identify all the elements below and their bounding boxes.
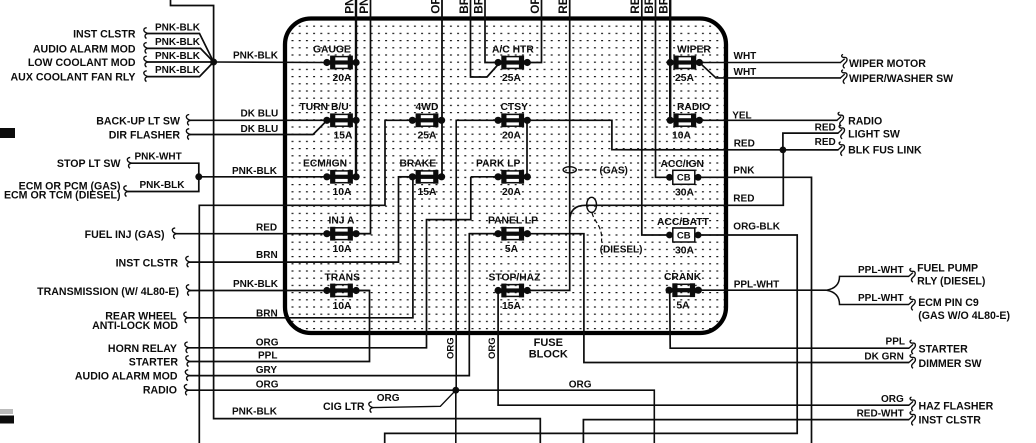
wire CIG LTR ORG: [369, 402, 373, 413]
circuit breaker ACC/IGN 30A: [661, 159, 704, 199]
svg-text:BRAKE: BRAKE: [400, 159, 437, 170]
wire RED branch arc to DIESEL line: [570, 205, 727, 221]
svg-text:RADIO: RADIO: [143, 384, 177, 396]
svg-text:PNK-BLK: PNK-BLK: [232, 407, 278, 418]
svg-text:30A: 30A: [675, 188, 694, 199]
wire BRAKE left lead: [399, 176, 413, 178]
svg-text:PNK-BLK: PNK-BLK: [233, 50, 279, 61]
svg-text:PNK-BLK: PNK-BLK: [140, 180, 186, 191]
wire AUDIO ALARM MOD PNK-BLK: [144, 43, 148, 54]
scan mark left edge 1: [0, 128, 15, 138]
svg-text:RED: RED: [256, 223, 277, 234]
node RED junction: [780, 147, 787, 154]
svg-text:TURN B/U: TURN B/U: [300, 102, 349, 113]
node ORG junction: [452, 387, 459, 394]
svg-text:CRANK: CRANK: [664, 272, 702, 283]
svg-text:FUEL INJ (GAS): FUEL INJ (GAS): [85, 229, 165, 241]
svg-text:RED-WHT: RED-WHT: [857, 408, 904, 419]
svg-text:10A: 10A: [333, 301, 352, 312]
wire hook ECM PNK-BLK: [124, 186, 128, 197]
svg-text:PNK-BLK: PNK-BLK: [232, 166, 278, 177]
fuse TRANS 10A: [323, 272, 360, 312]
svg-text:FUEL PUMP: FUEL PUMP: [917, 262, 978, 274]
svg-text:A/C HTR: A/C HTR: [492, 44, 534, 55]
svg-text:PANEL LP: PANEL LP: [488, 216, 538, 227]
wire DIESEL RED riser: [727, 150, 783, 205]
svg-text:PNK-BLK: PNK-BLK: [155, 37, 201, 48]
svg-text:PN: PN: [342, 0, 356, 14]
svg-text:ACC/IGN: ACC/IGN: [661, 159, 704, 170]
wire WIPER WHT 2: [699, 63, 841, 78]
svg-text:20A: 20A: [502, 131, 521, 142]
fuse STOP/HAZ 15A: [489, 272, 541, 312]
svg-text:INJ A: INJ A: [329, 216, 356, 227]
wire BACK-UP LT SW DK BLU: [186, 115, 190, 126]
svg-text:25A: 25A: [418, 131, 437, 142]
svg-text:ORG: ORG: [487, 337, 498, 359]
node PNK-BLK junction: [210, 59, 217, 66]
wire PARK LP left lead: [471, 176, 498, 178]
wire AUX COOLANT FAN RLY PNK-BLK: [144, 71, 148, 82]
wire ACC/BATT ORG-BLK: [385, 235, 798, 443]
fuse GAUGE 20A: [313, 44, 360, 84]
svg-text:HORN RELAY: HORN RELAY: [108, 343, 177, 355]
svg-text:STOP/HAZ: STOP/HAZ: [489, 272, 541, 283]
circuit breaker ACC/BATT 30A: [657, 217, 710, 256]
svg-text:WHT: WHT: [734, 67, 757, 78]
svg-text:ECM/IGN: ECM/IGN: [303, 159, 347, 170]
fuse CRANK 5A: [664, 272, 702, 312]
svg-text:CB: CB: [677, 173, 691, 184]
svg-text:STARTER: STARTER: [129, 357, 179, 369]
svg-text:DIR FLASHER: DIR FLASHER: [109, 129, 181, 141]
svg-text:OR: OR: [528, 0, 542, 14]
svg-text:ECM OR TCM (DIESEL): ECM OR TCM (DIESEL): [4, 189, 121, 201]
svg-text:DK GRN: DK GRN: [864, 351, 903, 362]
svg-text:TRANSMISSION (W/ 4L80-E): TRANSMISSION (W/ 4L80-E): [37, 286, 179, 298]
fuse PANEL LP 5A: [488, 216, 538, 256]
wire RED-WHT to INST CLSTR: [583, 420, 909, 443]
wire STARTER PPL to TRANS right: [186, 356, 190, 367]
svg-text:BRN: BRN: [256, 250, 278, 261]
svg-text:25A: 25A: [502, 73, 521, 84]
wire CTSY right to PARK LP right: [526, 120, 528, 177]
wire PPL-WHT fork lower: [827, 290, 910, 304]
svg-text:RED: RED: [815, 123, 836, 134]
svg-text:BRN: BRN: [256, 308, 278, 319]
svg-text:20A: 20A: [502, 187, 521, 198]
svg-text:BR: BR: [471, 0, 485, 14]
svg-text:ORG: ORG: [445, 337, 456, 359]
svg-text:STOP LT SW: STOP LT SW: [57, 158, 121, 170]
wire ACC/IGN PNK: [698, 177, 811, 443]
node ECM junction: [195, 173, 202, 180]
svg-text:DK BLU: DK BLU: [241, 109, 279, 120]
svg-text:(DIESEL): (DIESEL): [600, 245, 643, 256]
svg-text:INST CLSTR: INST CLSTR: [116, 257, 179, 269]
fuse 4WD 25A: [409, 102, 445, 142]
svg-text:AUX COOLANT FAN RLY: AUX COOLANT FAN RLY: [11, 72, 136, 84]
svg-text:4WD: 4WD: [416, 102, 439, 113]
svg-text:ECM PIN C9: ECM PIN C9: [918, 297, 979, 309]
wire CTSY left drop to bottom: [456, 120, 498, 390]
wire INST CLSTR PNK-BLK: [144, 28, 148, 39]
wire RED LIGHT SW: [783, 133, 839, 150]
fuse TURN B/U 15A: [300, 102, 360, 142]
scan mark left edge 2: [0, 416, 14, 424]
svg-text:RE: RE: [556, 0, 570, 14]
svg-text:RED: RED: [733, 194, 754, 205]
svg-text:HAZ FLASHER: HAZ FLASHER: [919, 400, 994, 412]
svg-text:25A: 25A: [675, 73, 694, 84]
wire INJ A right lead: [356, 233, 371, 235]
svg-text:PN: PN: [357, 0, 371, 14]
svg-text:PNK-BLK: PNK-BLK: [155, 65, 201, 76]
wire PPL-WHT fork upper: [827, 276, 910, 290]
svg-text:BR: BR: [642, 0, 656, 14]
wire PNK-BLK long vertical from top-left: [171, 0, 541, 443]
wire 4WD/BRAKE right bus: [441, 120, 443, 177]
svg-text:ORG: ORG: [256, 337, 279, 348]
svg-text:CTSY: CTSY: [501, 102, 529, 113]
svg-text:10A: 10A: [333, 187, 352, 198]
svg-text:DIMMER SW: DIMMER SW: [919, 358, 982, 370]
svg-text:FUSE: FUSE: [534, 337, 563, 349]
svg-text:RADIO: RADIO: [677, 102, 710, 113]
svg-text:BR: BR: [657, 0, 671, 14]
svg-text:AUDIO ALARM MOD: AUDIO ALARM MOD: [33, 43, 136, 55]
fuse RADIO 10A: [667, 102, 711, 142]
svg-text:RADIO: RADIO: [848, 116, 882, 128]
svg-text:ORG: ORG: [569, 380, 592, 391]
svg-text:10A: 10A: [672, 131, 691, 142]
fuse CTSY 20A: [495, 102, 531, 142]
svg-text:RED: RED: [734, 138, 755, 149]
wire HORN RELAY ORG to PARK LP: [185, 342, 189, 353]
svg-text:PNK-BLK: PNK-BLK: [155, 23, 201, 34]
svg-text:DK BLU: DK BLU: [241, 124, 279, 135]
svg-text:PNK-BLK: PNK-BLK: [233, 279, 279, 290]
svg-text:PNK-WHT: PNK-WHT: [135, 152, 182, 163]
wire TRANS right drop (PPL): [356, 290, 370, 292]
svg-text:TRANS: TRANS: [325, 272, 361, 283]
svg-text:YEL: YEL: [732, 110, 751, 121]
svg-text:15A: 15A: [502, 301, 521, 312]
svg-text:ANTI-LOCK MOD: ANTI-LOCK MOD: [92, 320, 178, 332]
wire PANEL LP DK GRN to DIMMER SW: [527, 234, 909, 363]
svg-text:WIPER/WASHER SW: WIPER/WASHER SW: [849, 73, 953, 85]
svg-text:BACK-UP LT SW: BACK-UP LT SW: [96, 115, 180, 127]
svg-text:ORG-BLK: ORG-BLK: [733, 222, 780, 233]
svg-text:WHT: WHT: [734, 51, 757, 62]
svg-text:ORG: ORG: [881, 394, 904, 405]
fuse ECM/IGN 10A: [303, 159, 360, 199]
svg-text:INST CLSTR: INST CLSTR: [919, 415, 982, 427]
wire PNK-BLK to GAUGE: [214, 61, 327, 64]
svg-text:ACC/BATT: ACC/BATT: [657, 217, 710, 228]
svg-text:15A: 15A: [334, 131, 353, 142]
svg-text:PPL-WHT: PPL-WHT: [858, 265, 904, 276]
connector loop (GAS): [563, 167, 576, 173]
svg-text:PNK-BLK: PNK-BLK: [155, 51, 201, 62]
connector loop (DIESEL): [587, 197, 597, 212]
svg-text:OR: OR: [428, 0, 442, 14]
svg-text:(GAS): (GAS): [600, 166, 628, 177]
wire STOP/HAZ right to RED GAS line: [527, 289, 541, 291]
svg-text:PNK: PNK: [733, 166, 755, 177]
fuse INJ A 10A: [323, 216, 359, 256]
svg-text:INST CLSTR: INST CLSTR: [73, 29, 136, 41]
wire DIR FLASHER DK BLU: [186, 129, 190, 140]
svg-text:ORG: ORG: [377, 393, 400, 404]
svg-text:WIPER: WIPER: [677, 44, 711, 55]
wire FUEL INJ RED: [172, 228, 176, 239]
svg-text:PPL-WHT: PPL-WHT: [858, 293, 904, 304]
wire AUDIO ALARM GRY to PANEL LP: [185, 370, 189, 381]
svg-text:BLK FUS LINK: BLK FUS LINK: [848, 144, 922, 156]
wire PNK-BLK to ECM/IGN: [199, 176, 327, 178]
svg-text:GAUGE: GAUGE: [313, 44, 351, 55]
svg-text:(GAS W/O 4L80-E): (GAS W/O 4L80-E): [918, 310, 1010, 322]
wire STOP LT SW PNK-WHT: [127, 157, 131, 168]
svg-text:BR: BR: [457, 0, 471, 14]
svg-text:WIPER MOTOR: WIPER MOTOR: [849, 58, 926, 70]
wire RADIO ORG long: [184, 384, 188, 395]
svg-text:PARK LP: PARK LP: [476, 159, 521, 170]
svg-text:GRY: GRY: [256, 365, 278, 376]
fuse WIPER 25A: [667, 44, 712, 84]
svg-text:BLOCK: BLOCK: [529, 349, 568, 361]
wire LOW COOLANT MOD PNK-BLK: [144, 56, 148, 67]
wire STOP/HAZ ORG to HAZ FLASHER: [498, 291, 909, 406]
svg-text:CIG LTR: CIG LTR: [323, 401, 365, 413]
wire PANEL LP left lead: [469, 233, 498, 235]
svg-text:STARTER: STARTER: [919, 343, 969, 355]
wire CRANK PPL-WHT: [698, 289, 827, 291]
svg-text:RLY (DIESEL): RLY (DIESEL): [917, 275, 985, 287]
fuse block body: [285, 19, 726, 334]
wire IGN bus GAUGE/TURN/ECM-IGN right: [355, 63, 357, 177]
svg-text:10A: 10A: [333, 244, 352, 255]
svg-text:20A: 20A: [333, 73, 352, 84]
svg-text:PPL-WHT: PPL-WHT: [734, 279, 780, 290]
fuse PARK LP 20A: [476, 159, 531, 199]
svg-text:LOW COOLANT MOD: LOW COOLANT MOD: [28, 57, 136, 69]
fuse A/C HTR 25A: [492, 44, 534, 84]
svg-text:ORG: ORG: [256, 379, 279, 390]
wire 4WD feed exit (left, down off page): [199, 120, 412, 443]
svg-text:5A: 5A: [505, 244, 519, 255]
svg-text:AUDIO ALARM MOD: AUDIO ALARM MOD: [75, 370, 178, 382]
svg-text:RED: RED: [815, 137, 836, 148]
wire WIPER WHT 1: [699, 62, 841, 64]
svg-text:PPL: PPL: [886, 337, 905, 348]
wire INST CLSTR BRN to BRAKE: [186, 256, 190, 267]
wire RADIO YEL: [699, 119, 837, 121]
svg-text:30A: 30A: [675, 245, 694, 256]
svg-text:RE: RE: [628, 0, 642, 14]
wire REAR WHEEL BRN from BRAKE left: [184, 312, 188, 323]
svg-text:LIGHT SW: LIGHT SW: [848, 128, 900, 140]
svg-text:PPL: PPL: [258, 350, 277, 361]
svg-text:5A: 5A: [676, 301, 690, 312]
wire TRANSMISSION PNK-BLK: [186, 285, 190, 296]
wire CRANK left drop to STARTER: [670, 290, 910, 348]
wire RED CTSY to BLK FUS LINK: [527, 120, 838, 150]
svg-text:CB: CB: [677, 230, 691, 241]
fuse BRAKE 15A: [400, 159, 446, 199]
svg-text:15A: 15A: [418, 187, 437, 198]
